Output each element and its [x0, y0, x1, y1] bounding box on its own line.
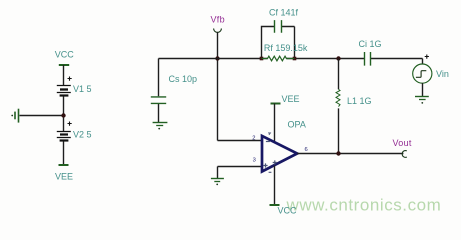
wire Vfb down to pin2 row	[217, 32, 219, 141]
svg-text:V1 5: V1 5	[73, 84, 92, 94]
svg-text:VCC: VCC	[278, 206, 298, 216]
junction dot at V1/V2 midpoint	[61, 113, 65, 117]
svg-text:VCC: VCC	[55, 49, 75, 59]
svg-text:OPA: OPA	[288, 119, 306, 129]
node VEE (left rail)	[55, 165, 73, 182]
inductor L1 1G	[336, 59, 372, 154]
wire node to ground	[20, 115, 64, 117]
wire pin2 horizontal	[218, 140, 262, 142]
svg-text:Rf 159.15k: Rf 159.15k	[264, 43, 308, 53]
svg-text:Vin: Vin	[436, 69, 449, 79]
op-amp OPA triangle with pin numbers 2,3,6 and +/- marks	[252, 133, 307, 172]
svg-text:Vout: Vout	[393, 138, 412, 148]
node VCC (left rail)	[55, 49, 75, 65]
wire output row	[297, 153, 403, 155]
wire pin3 horizontal and ground stem	[218, 167, 262, 179]
node Vout	[393, 138, 412, 157]
svg-text:2: 2	[252, 136, 255, 142]
capacitor Ci 1G	[359, 39, 382, 65]
node VEE (op-amp top rail)	[271, 94, 300, 104]
svg-text:VEE: VEE	[282, 94, 300, 104]
node VCC (op-amp bottom rail)	[270, 205, 298, 216]
svg-text:V2 5: V2 5	[73, 130, 92, 140]
node Vfb	[211, 14, 225, 32]
battery V1 5	[57, 77, 92, 96]
svg-text:VEE: VEE	[55, 172, 73, 182]
ground below Cs	[153, 123, 168, 130]
wire op-amp bottom power	[274, 166, 276, 205]
junction Vfb/main row	[215, 56, 219, 60]
source Vin	[413, 55, 449, 84]
ground (left, sideways)	[11, 109, 18, 123]
junction dot output/inductor	[336, 151, 340, 155]
svg-text:Vfb: Vfb	[211, 14, 225, 24]
svg-text:Cs 10p: Cs 10p	[169, 74, 198, 84]
junction dot inductor top	[336, 56, 340, 60]
svg-text:Cf 141f: Cf 141f	[269, 7, 299, 17]
ground below pin3	[211, 179, 224, 186]
svg-text:6: 6	[305, 147, 308, 153]
capacitor Cf 141f	[262, 7, 299, 58]
wire main top row	[159, 59, 423, 64]
svg-text:3: 3	[253, 158, 256, 164]
capacitor Cs 10p	[151, 59, 197, 123]
wire Vin to ground	[422, 83, 424, 96]
resistor Rf 159.15k	[262, 43, 308, 61]
battery V2 5	[57, 122, 92, 141]
wire VEE bar to op-amp	[274, 104, 276, 142]
svg-text:Ci 1G: Ci 1G	[359, 39, 382, 49]
wire VCC bar to V1	[63, 65, 65, 85]
wire V1 to V2 through node	[63, 97, 65, 132]
svg-text:L1 1G: L1 1G	[347, 96, 372, 106]
wire V2 to VEE bar	[63, 142, 65, 166]
ground below Vin	[415, 97, 429, 104]
svg-text:www.cntronics.com: www.cntronics.com	[286, 196, 442, 215]
junction squares Cf branch	[260, 57, 264, 61]
